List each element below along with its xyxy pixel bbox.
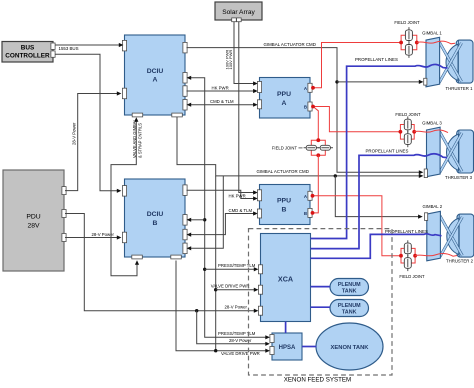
junction valve drive join: [214, 349, 217, 352]
port BUS CONTROLLER out 1: [51, 43, 55, 49]
red node PPU A port A: [311, 86, 315, 90]
svg-text:PPU: PPU: [277, 198, 291, 205]
svg-text:28V: 28V: [27, 222, 40, 229]
svg-text:PROPELLANT LINES: PROPELLANT LINES: [355, 57, 398, 62]
wire gimbal actuator cmd from DCIU A: [187, 48, 420, 173]
tank XENON TANK: [316, 323, 383, 370]
junction gimbal line thruster1 branch: [335, 80, 338, 83]
propellant line XCA to HPSA: [285, 322, 287, 334]
wire 100V PWR solar array to PPU A: [234, 22, 254, 84]
svg-text:XENON TANK: XENON TANK: [331, 345, 370, 351]
tank PLENUM TANK 2: [330, 300, 369, 317]
svg-text:GIMBAL 1: GIMBAL 1: [422, 30, 442, 35]
propellant line to plenum tank 1: [311, 286, 331, 288]
field joint 2: [401, 248, 415, 255]
junction press/temp to XCA: [203, 268, 206, 271]
port PDU 2: [62, 210, 66, 218]
svg-text:VALVE DRIVE PWR: VALVE DRIVE PWR: [211, 284, 250, 289]
svg-text:THRUSTER 2: THRUSTER 2: [446, 259, 474, 264]
wire gimbal branch to thruster 2: [335, 176, 419, 217]
svg-text:PRESS/TEMP TLM: PRESS/TEMP TLM: [218, 263, 256, 268]
wire 28-V power PDU to XCA and HPSA: [65, 214, 255, 311]
svg-text:PDU: PDU: [26, 214, 40, 221]
port DCIU A right 3: [183, 86, 187, 97]
svg-text:HK PWR: HK PWR: [212, 86, 229, 91]
port thruster 3 gimbal: [424, 169, 427, 178]
block DCIU A: [125, 35, 186, 115]
port XCA left 1: [258, 265, 262, 274]
wire valve drive into XCA: [216, 289, 255, 291]
svg-text:GIMBAL 2: GIMBAL 2: [422, 204, 442, 209]
svg-text:THRUSTER 1: THRUSTER 1: [446, 86, 474, 91]
svg-text:B: B: [282, 207, 287, 214]
port thruster 1 gimbal: [424, 78, 427, 85]
wire press/temp arrow into DCIU B: [191, 219, 205, 221]
port PDU 1: [62, 187, 66, 195]
port DCIU B right 3: [183, 229, 187, 240]
wire HK PWR DCIU B to PPU B: [187, 190, 254, 198]
svg-text:BUS: BUS: [21, 44, 35, 51]
port DCIU A bottom 1: [132, 113, 143, 117]
port HPSA left 1: [270, 335, 274, 343]
wire gimbal actuator cmd 2 from DCIU A bottom port: [177, 117, 420, 176]
port DCIU A right 2: [183, 73, 187, 84]
field joint center: [311, 140, 318, 155]
propellant line to thruster 2: [311, 234, 442, 259]
port XCA left 3: [258, 306, 262, 315]
svg-text:CONTROLLER: CONTROLLER: [5, 53, 50, 60]
wire red PPU A port A to thruster 1: [313, 43, 401, 88]
svg-text:FIELD JOINT: FIELD JOINT: [394, 20, 420, 25]
svg-text:PRESS/TEMP TLM: PRESS/TEMP TLM: [218, 331, 256, 336]
svg-text:GIMBAL ACTUATOR CMD: GIMBAL ACTUATOR CMD: [257, 169, 309, 174]
svg-text:FIELD JOINT: FIELD JOINT: [272, 145, 298, 150]
svg-text:TANK: TANK: [342, 310, 357, 316]
port DCIU B bottom 2: [171, 255, 182, 259]
wire red PPU B port A to thruster 2: [313, 196, 402, 256]
block HPSA: [272, 333, 302, 360]
xenon feed system dashed boundary: [249, 229, 393, 375]
wire valve and gimbal strap cntrls U-link DCIU A to DCIU B: [111, 121, 137, 276]
wire VALVE DRIVE PWR bus from DCIU A bottom: [215, 176, 217, 351]
wire red wiggle into thruster 1: [417, 41, 455, 44]
wire 100V PWR solar array to PPU B: [239, 22, 254, 193]
red node PPU A port B: [311, 105, 315, 109]
svg-text:CMD & TLM: CMD & TLM: [229, 208, 253, 213]
svg-text:GIMBAL 3: GIMBAL 3: [422, 121, 442, 126]
block BUS CONTROLLER: [2, 42, 53, 63]
wire 28-V branch to HPSA: [197, 311, 266, 344]
port PPU B left 2: [257, 209, 261, 218]
svg-text:HK PWR: HK PWR: [229, 193, 246, 198]
port DCIU B right 4: [183, 243, 187, 254]
port DCIU A left 1: [122, 40, 126, 51]
svg-text:PLENUM: PLENUM: [338, 282, 361, 288]
junction press/temp to DCIU B: [203, 218, 206, 221]
svg-text:28-V Power: 28-V Power: [72, 122, 77, 145]
port solar array 2: [237, 18, 242, 22]
port PPU B right A: [308, 191, 312, 200]
wire CMD & TLM DCIU B to PPU B: [191, 214, 254, 235]
svg-text:& STRAP CNTRLS: & STRAP CNTRLS: [137, 123, 142, 158]
wire red wiggle into thruster 3: [414, 130, 448, 133]
svg-text:TANK: TANK: [342, 289, 357, 295]
junction 28V branch: [195, 309, 198, 312]
port PPU B left 1: [257, 190, 261, 201]
wire gimbal branch to thruster 1: [337, 81, 420, 83]
port PPU A right B: [308, 102, 312, 111]
propellant line to thruster 1: [311, 64, 448, 238]
propellant line to plenum tank 2: [311, 306, 331, 308]
wire 28-V power PDU to DCIU B: [65, 237, 118, 239]
svg-text:FIELD JOINT: FIELD JOINT: [395, 112, 421, 117]
svg-text:Solar Array: Solar Array: [222, 9, 255, 16]
svg-text:GIMBAL ACTUATOR CMD: GIMBAL ACTUATOR CMD: [264, 42, 316, 47]
wire red PPU A port B down through center field joint to PPU B port B: [313, 107, 318, 141]
wire 1553 bus to DCIU B: [55, 54, 118, 191]
port HPSA left 2: [270, 347, 274, 355]
red node PPU B port B: [311, 211, 315, 215]
block PPU A: [260, 78, 311, 119]
wire CMD & TLM DCIU A to PPU A: [191, 104, 254, 106]
svg-text:XENON FEED SYSTEM: XENON FEED SYSTEM: [284, 377, 351, 383]
svg-text:PPU: PPU: [277, 91, 291, 98]
tank PLENUM TANK 1: [330, 279, 369, 296]
propellant line HPSA to xenon tank: [302, 346, 317, 348]
svg-text:HPSA: HPSA: [279, 345, 296, 351]
port PPU A left 1: [257, 82, 261, 93]
wire 28-V power PDU to DCIU A: [65, 94, 118, 191]
svg-text:PROPELLANT LINES: PROPELLANT LINES: [366, 149, 409, 154]
thruster T3 assembly: [457, 130, 474, 173]
wire PRESS/TEMP TLM bus vertical: [191, 78, 267, 338]
svg-text:CMD & TLM: CMD & TLM: [210, 99, 234, 104]
port solar array 1: [232, 18, 237, 22]
wire HK PWR DCIU A to PPU A: [187, 90, 254, 92]
svg-text:1553 BUS: 1553 BUS: [59, 46, 79, 51]
block PDU 28V: [3, 170, 64, 271]
svg-text:DCIU: DCIU: [147, 68, 164, 75]
port DCIU A right 1: [183, 42, 187, 53]
port DCIU B right 1: [183, 185, 187, 196]
port DCIU B right 2: [183, 215, 187, 226]
red node PPU B port A: [311, 194, 315, 198]
svg-text:FIELD JOINT: FIELD JOINT: [399, 274, 425, 279]
port DCIU A right 4: [183, 100, 187, 111]
svg-text:A: A: [282, 100, 287, 107]
port PPU A left 2: [257, 100, 261, 109]
port PPU A right A: [308, 83, 312, 92]
port DCIU B left 2: [122, 232, 126, 243]
wire 1553 bus to DCIU A: [55, 44, 120, 46]
svg-text:28-V Power: 28-V Power: [225, 305, 248, 310]
svg-text:100V PWR: 100V PWR: [228, 50, 233, 70]
svg-text:THRUSTER 3: THRUSTER 3: [445, 175, 473, 180]
port XCA left 2: [258, 285, 262, 294]
wire press/temp into XCA: [205, 268, 255, 270]
svg-text:A: A: [153, 76, 158, 83]
port DCIU A bottom 2: [172, 113, 183, 117]
propellant line to thruster 3: [311, 154, 448, 249]
field joint 3: [400, 125, 414, 132]
wire red PPU A port B to thruster 3: [313, 107, 400, 132]
svg-text:XCA: XCA: [278, 274, 293, 283]
svg-text:B: B: [153, 220, 158, 227]
thruster T1 assembly: [456, 40, 473, 83]
junction gimbal2 branch to thruster 2: [334, 174, 337, 177]
svg-text:B: B: [304, 105, 307, 110]
wire VALVE DRIVE PWR DCIU B to HPSA: [176, 261, 266, 351]
thruster T2 assembly: [457, 214, 474, 257]
svg-text:DCIU: DCIU: [147, 211, 164, 218]
junction valve drive to XCA: [214, 288, 217, 291]
wire red wiggle into thruster 2: [415, 254, 457, 257]
port PDU 3: [62, 234, 66, 242]
block XCA: [261, 234, 311, 322]
port DCIU B bottom 1: [132, 255, 143, 259]
field joint 1: [401, 35, 417, 42]
port BUS CONTROLLER out 2: [51, 51, 55, 57]
block DCIU B: [125, 179, 186, 257]
port thruster 2 gimbal: [425, 213, 428, 221]
port DCIU A left 2: [122, 88, 126, 99]
port PPU B right B: [308, 208, 312, 217]
block Solar Array: [215, 2, 262, 20]
svg-text:B: B: [304, 211, 307, 216]
svg-text:PLENUM: PLENUM: [338, 303, 361, 309]
svg-text:VALVE DRIVE PWR: VALVE DRIVE PWR: [221, 351, 260, 356]
port DCIU B left 1: [122, 186, 126, 197]
wire arrow into DCIU B p4: [191, 176, 224, 248]
block PPU B: [260, 185, 311, 225]
